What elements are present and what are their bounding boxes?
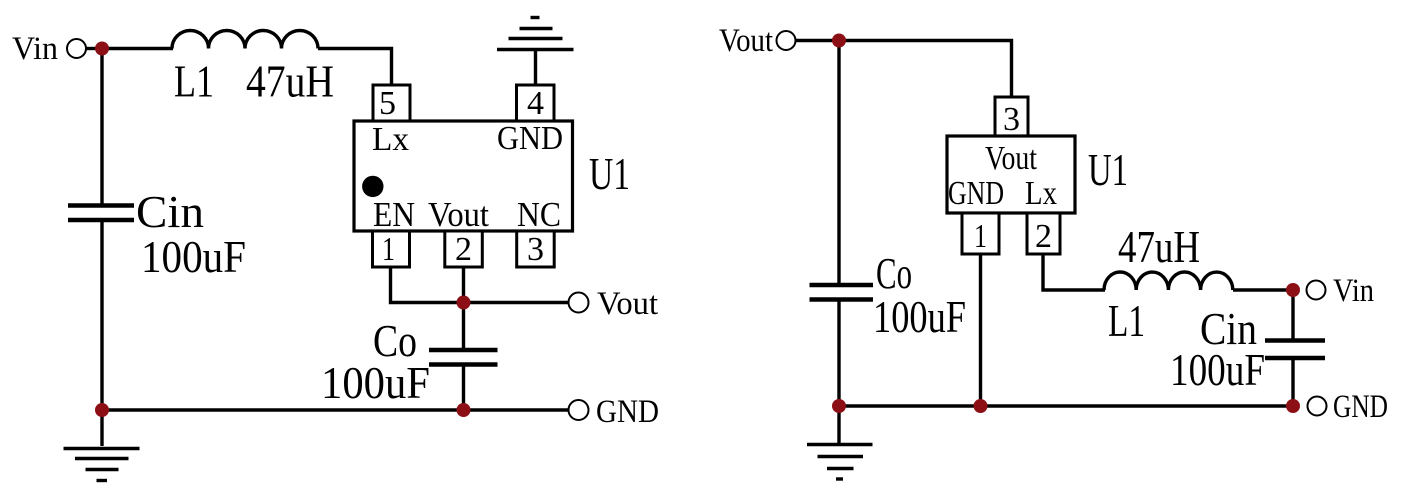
- wire pin 4 to top ground: [534, 50, 537, 85]
- node C (Vout junction left): [457, 296, 471, 310]
- inductor L1 (right): [1104, 272, 1233, 290]
- svg-text:1: 1: [974, 218, 987, 255]
- pin number 5: [379, 85, 396, 122]
- label Co 100uF (left): [321, 357, 430, 408]
- capacitor Co (left): [429, 350, 498, 365]
- terminal Vin (right): [1307, 281, 1326, 300]
- wire inductor to node H (Vin right): [1233, 288, 1293, 291]
- wire pin 1 to ground rail (right): [979, 254, 982, 406]
- svg-text:100uF: 100uF: [141, 231, 246, 282]
- terminal GND (right): [1308, 397, 1327, 416]
- pin label Vout (left U1): [428, 195, 489, 234]
- svg-text:GND: GND: [948, 175, 1004, 212]
- wire Cin to ground rail (right): [1291, 359, 1294, 406]
- op-amp U1 body (right): [947, 136, 1075, 213]
- pin 2 box (right): [1027, 213, 1060, 254]
- ground symbol left: [64, 449, 140, 481]
- pin number 2 (right): [1035, 218, 1052, 255]
- wire ground rail left circuit: [102, 408, 569, 411]
- svg-text:47uH: 47uH: [246, 56, 334, 107]
- wire Co to ground rail (right): [837, 301, 840, 406]
- wire node C to Vout terminal: [464, 301, 570, 304]
- label U1 (left): [589, 148, 630, 199]
- pin label GND (left U1): [497, 120, 563, 157]
- label Cin: [136, 186, 204, 237]
- svg-text:47uH: 47uH: [1118, 221, 1200, 272]
- label L1 (right): [1108, 295, 1145, 346]
- label GND terminal (right): [1333, 389, 1388, 425]
- svg-text:NC: NC: [517, 195, 561, 234]
- wire node E to pin 3: [839, 41, 1012, 98]
- svg-text:U1: U1: [589, 148, 630, 199]
- svg-text:GND: GND: [497, 120, 563, 157]
- ground symbol top (inverted): [497, 18, 574, 50]
- terminal Vout (right): [777, 31, 796, 50]
- terminal Vin: [67, 39, 86, 58]
- svg-text:Lx: Lx: [372, 121, 409, 158]
- label Co (right): [876, 249, 912, 298]
- wire inductor to pin 5 corner: [318, 49, 392, 86]
- svg-text:100uF: 100uF: [1170, 344, 1265, 395]
- svg-text:3: 3: [527, 231, 544, 268]
- pin 1 indicator dot: [362, 176, 383, 197]
- label L1: [174, 56, 214, 107]
- pin number 4: [527, 85, 544, 122]
- wire node F to ground symbol (right): [837, 406, 840, 443]
- svg-text:Cin: Cin: [136, 186, 204, 237]
- wire pin 2 down: [462, 267, 465, 349]
- node D (ground junction left): [457, 403, 471, 417]
- label 47uH: [246, 56, 334, 107]
- svg-text:Vin: Vin: [12, 31, 58, 67]
- pin 3 box (right): [995, 97, 1028, 136]
- label U1 (right): [1088, 144, 1128, 195]
- svg-text:GND: GND: [596, 394, 659, 430]
- svg-text:Vout: Vout: [428, 195, 489, 234]
- wire ground rail right circuit: [839, 404, 1293, 407]
- svg-text:L1: L1: [1108, 295, 1145, 346]
- node E (Vout junction right): [832, 34, 846, 48]
- svg-text:2: 2: [455, 231, 472, 268]
- node H (Vin junction right): [1286, 283, 1300, 297]
- svg-text:EN: EN: [373, 195, 415, 234]
- pin number 3: [527, 231, 544, 268]
- wire pin 2 to inductor (right): [1043, 254, 1105, 290]
- label Cin (right): [1200, 303, 1257, 354]
- svg-text:GND: GND: [1333, 389, 1388, 425]
- label Co 100uF (right): [873, 291, 966, 342]
- wire node H down to Cin (right): [1291, 290, 1294, 340]
- svg-text:100uF: 100uF: [873, 291, 966, 342]
- ground symbol right: [807, 445, 873, 480]
- label Cin 100uF: [141, 231, 246, 282]
- pin 1 box: [373, 231, 410, 267]
- pin label EN: [373, 195, 415, 234]
- inductor L1: [172, 31, 318, 49]
- wire node A down to Cin: [100, 49, 103, 205]
- wire Cin to ground rail: [100, 221, 103, 410]
- svg-text:3: 3: [1003, 101, 1020, 138]
- label 47uH (right): [1118, 221, 1200, 272]
- node A (Vin junction): [95, 42, 109, 56]
- svg-text:L1: L1: [174, 56, 214, 107]
- wire node B to ground symbol: [100, 410, 103, 446]
- pin number 1 (right): [974, 218, 987, 255]
- pin label Lx (left U1): [372, 121, 409, 158]
- svg-text:4: 4: [527, 85, 544, 122]
- label Vin terminal (right): [1333, 273, 1374, 309]
- node G (pin1 ground junction): [974, 399, 988, 413]
- pin label NC: [517, 195, 561, 234]
- pin 2 box: [445, 231, 483, 267]
- wire node E down to Co: [837, 41, 840, 285]
- label Vin: [12, 31, 58, 67]
- svg-text:5: 5: [379, 85, 396, 122]
- pin label Lx (right U1): [1025, 175, 1057, 212]
- capacitor Co (right): [810, 285, 874, 300]
- wire Vin terminal to node A: [86, 47, 102, 50]
- label Vout (right input): [719, 23, 773, 59]
- pin number 3 (right): [1003, 101, 1020, 138]
- svg-text:2: 2: [1035, 218, 1052, 255]
- svg-text:1: 1: [382, 231, 395, 268]
- svg-text:U1: U1: [1088, 144, 1128, 195]
- op-amp U1 body (left): [354, 121, 573, 231]
- terminal GND (left): [569, 400, 589, 420]
- pin number 1: [382, 231, 395, 268]
- terminal Vout (left): [569, 293, 589, 313]
- pin label Vout (right U1): [985, 140, 1037, 177]
- node B (left ground junction): [95, 403, 109, 417]
- pin 1 box (right): [962, 213, 999, 254]
- node I (GND junction right): [1286, 399, 1300, 413]
- pin 5 box: [373, 85, 410, 121]
- svg-text:Vout: Vout: [597, 286, 658, 322]
- capacitor Cin (right): [1265, 341, 1325, 359]
- label Cin 100uF (right): [1170, 344, 1265, 395]
- svg-text:Vout: Vout: [719, 23, 773, 59]
- svg-text:Lx: Lx: [1025, 175, 1057, 212]
- svg-text:100uF: 100uF: [321, 357, 430, 408]
- node F (ground junction right-left): [832, 399, 846, 413]
- wire Vout terminal to node E: [796, 39, 840, 42]
- wire Co to ground rail: [462, 366, 465, 410]
- pin label GND (right U1): [948, 175, 1004, 212]
- label Co (left): [373, 315, 417, 366]
- capacitor Cin: [68, 206, 134, 221]
- pin number 2: [455, 231, 472, 268]
- pin 3 box: [517, 231, 555, 267]
- pin 4 box: [517, 85, 555, 121]
- wire pin 1 to Vout net: [391, 267, 464, 303]
- wire node A to inductor L1: [102, 47, 173, 50]
- label Vout terminal (left): [597, 286, 658, 322]
- svg-text:Vin: Vin: [1333, 273, 1374, 309]
- label GND terminal (left): [596, 394, 659, 430]
- svg-text:Vout: Vout: [985, 140, 1037, 177]
